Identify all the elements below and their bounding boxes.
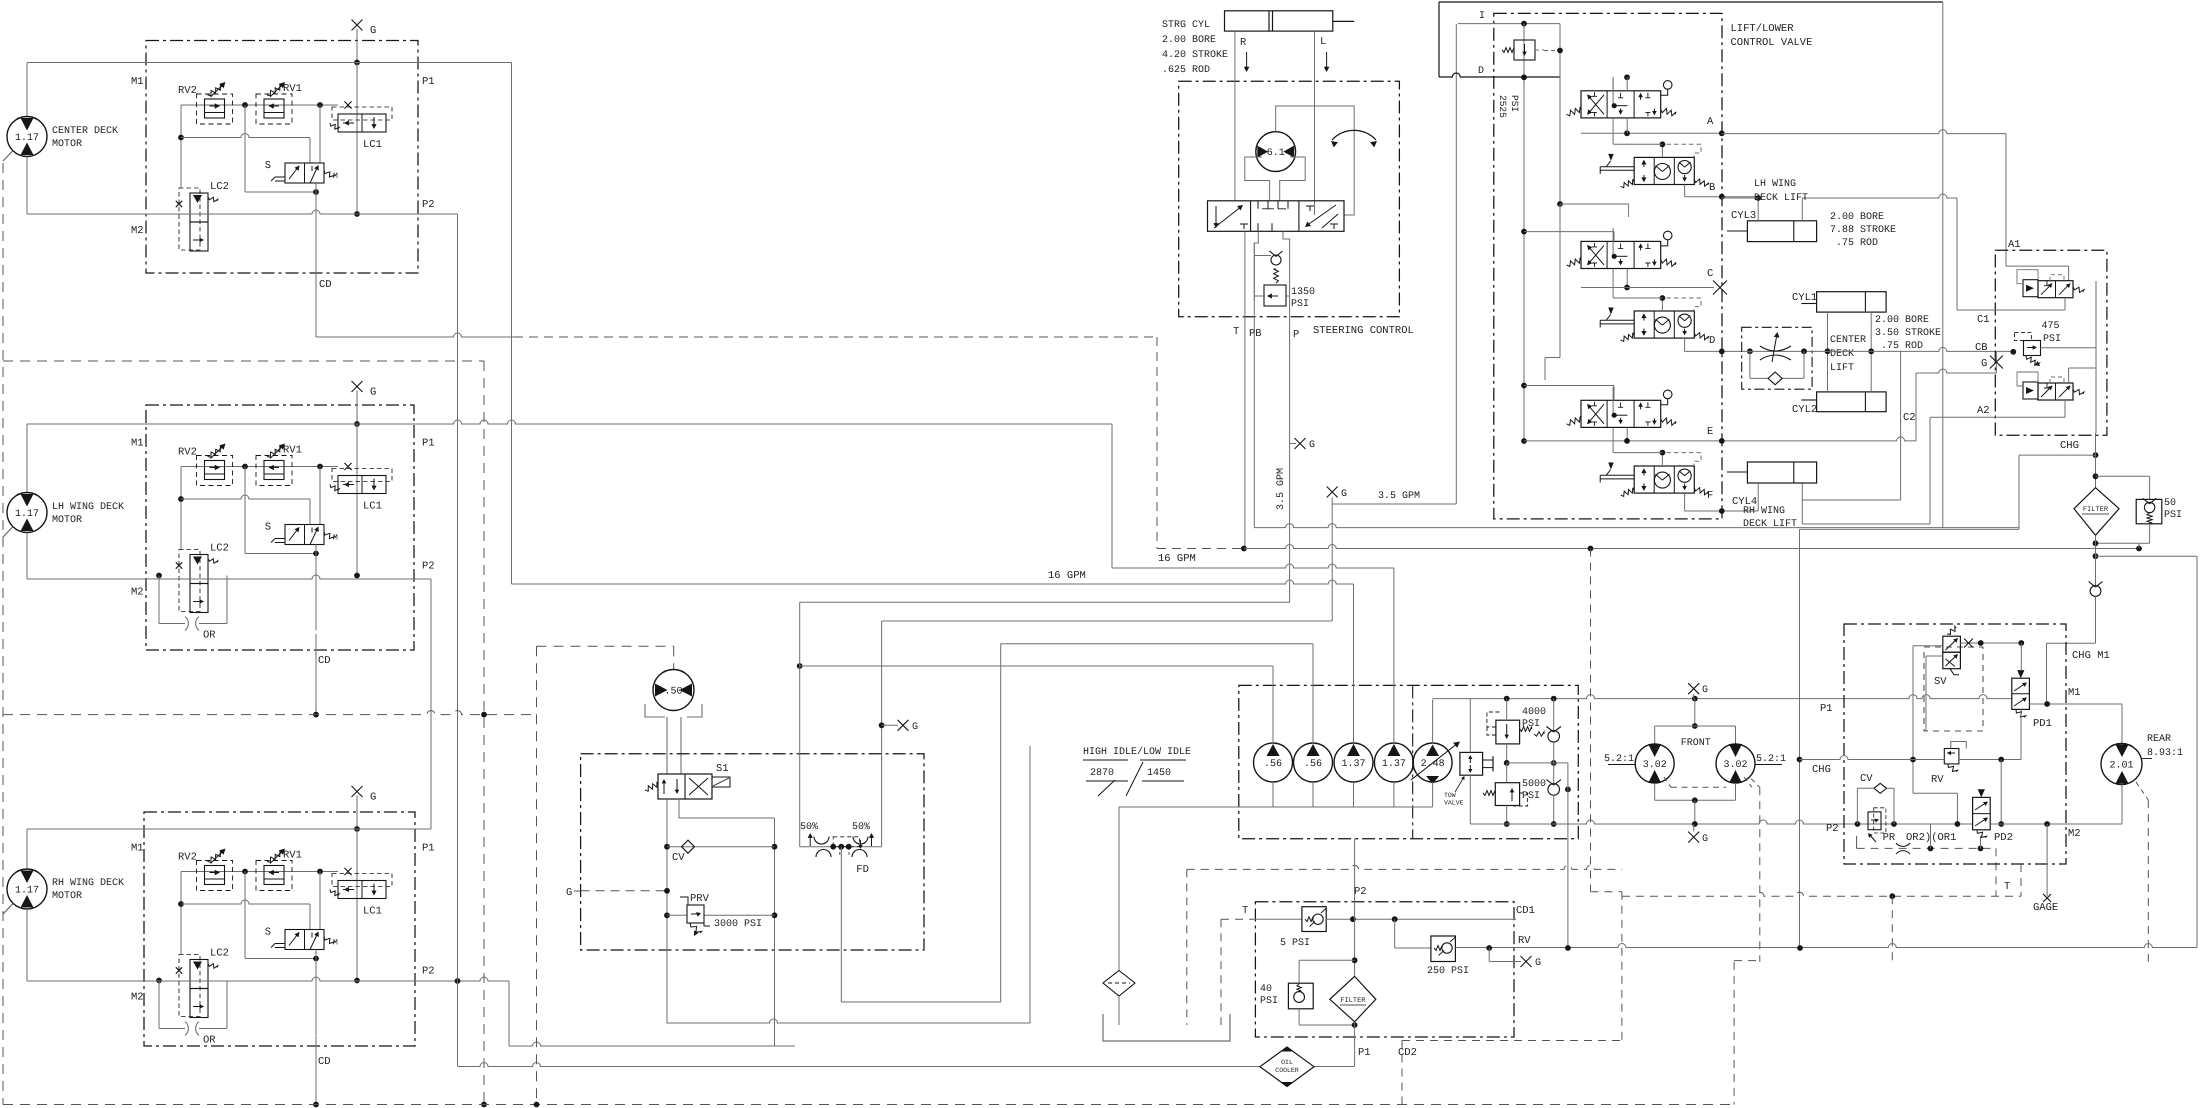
svg-text:C: C [1707, 268, 1713, 280]
svg-text:RH WING: RH WING [1743, 506, 1785, 517]
svg-text:RH WING DECK: RH WING DECK [52, 878, 124, 889]
svg-text:R: R [1240, 37, 1247, 49]
svg-text:PD1: PD1 [2033, 718, 2052, 730]
svg-text:T: T [2004, 881, 2010, 893]
svg-text:PD2: PD2 [1994, 832, 2013, 844]
svg-text:M1: M1 [131, 843, 144, 855]
svg-text:OR: OR [203, 630, 216, 642]
svg-text:3.02: 3.02 [1643, 760, 1667, 771]
svg-text:CD2: CD2 [1398, 1047, 1417, 1059]
svg-text:CYL1: CYL1 [1792, 292, 1817, 304]
svg-text:PSI: PSI [2164, 510, 2182, 521]
svg-text:CONTROL VALVE: CONTROL VALVE [1731, 37, 1813, 49]
svg-text:PSI: PSI [1260, 996, 1278, 1007]
svg-text:LC1: LC1 [363, 139, 382, 151]
svg-text:3000 PSI: 3000 PSI [714, 919, 762, 930]
svg-text:4000: 4000 [1522, 707, 1546, 718]
svg-text:LC2: LC2 [210, 181, 229, 193]
svg-text:3.5 GPM: 3.5 GPM [1276, 468, 1287, 510]
svg-text:LH WING: LH WING [1754, 179, 1796, 190]
svg-text:P1: P1 [1358, 1047, 1371, 1059]
svg-text:FRONT: FRONT [1681, 738, 1711, 749]
svg-text:LIFT/LOWER: LIFT/LOWER [1731, 23, 1795, 35]
svg-text:5 PSI: 5 PSI [1280, 938, 1310, 949]
svg-text:MOTOR: MOTOR [52, 891, 82, 902]
svg-text:PSI: PSI [1522, 791, 1540, 802]
svg-text:CHG: CHG [2060, 440, 2079, 452]
svg-text:G: G [370, 387, 376, 399]
svg-text:2.00 BORE: 2.00 BORE [1875, 315, 1929, 326]
svg-text:DECK LIFT: DECK LIFT [1743, 519, 1797, 530]
svg-text:RV2: RV2 [178, 852, 197, 864]
svg-text:CENTER DECK: CENTER DECK [52, 126, 118, 137]
svg-text:PSI: PSI [2043, 334, 2061, 345]
svg-text:REAR: REAR [2147, 734, 2171, 745]
svg-text:G: G [1309, 440, 1315, 451]
svg-text:M1: M1 [131, 438, 144, 450]
svg-text:.625 ROD: .625 ROD [1162, 65, 1210, 76]
svg-text:2.48: 2.48 [1421, 759, 1445, 770]
svg-text:CD1: CD1 [1516, 905, 1535, 917]
svg-text:50%: 50% [852, 822, 870, 833]
svg-text:STRG CYL: STRG CYL [1162, 20, 1210, 31]
svg-text:G: G [1535, 958, 1541, 969]
svg-text:RV2: RV2 [178, 85, 197, 97]
svg-text:G: G [1702, 685, 1708, 696]
svg-text:STEERING CONTROL: STEERING CONTROL [1313, 325, 1414, 337]
svg-text:T: T [1233, 326, 1239, 338]
svg-text:G: G [1341, 489, 1347, 500]
svg-text:M1: M1 [131, 76, 144, 88]
svg-text:CV: CV [672, 852, 685, 864]
svg-text:DECK: DECK [1830, 349, 1854, 360]
svg-text:C1: C1 [1977, 314, 1990, 326]
svg-text:.56: .56 [1304, 759, 1322, 770]
svg-text:2870: 2870 [1090, 768, 1114, 779]
svg-text:CHG: CHG [1812, 764, 1831, 776]
svg-text:P1: P1 [422, 438, 435, 450]
svg-text:5.2:1: 5.2:1 [1756, 754, 1786, 765]
svg-text:RV2: RV2 [178, 447, 197, 459]
svg-text:M: M [333, 939, 338, 948]
svg-text:P2: P2 [1354, 886, 1367, 898]
svg-text:A2: A2 [1977, 405, 1990, 417]
svg-text:50%: 50% [800, 822, 818, 833]
svg-text:1.17: 1.17 [15, 886, 39, 897]
svg-text:OIL: OIL [1281, 1059, 1293, 1066]
svg-text:RV1: RV1 [283, 445, 302, 457]
svg-text:PSI: PSI [1522, 719, 1540, 730]
svg-text:LH WING DECK: LH WING DECK [52, 502, 124, 513]
svg-text:8.93:1: 8.93:1 [2147, 748, 2183, 759]
svg-text:1350: 1350 [1291, 287, 1315, 298]
svg-text:A1: A1 [2008, 239, 2021, 251]
svg-text:.75 ROD: .75 ROD [1881, 341, 1923, 352]
svg-text:VALVE: VALVE [1444, 800, 1464, 807]
svg-text:16 GPM: 16 GPM [1158, 553, 1196, 565]
svg-text:RV: RV [1931, 774, 1944, 786]
svg-text:PSI: PSI [1291, 299, 1309, 310]
svg-text:2.00 BORE: 2.00 BORE [1162, 35, 1216, 46]
svg-text:16 GPM: 16 GPM [1048, 570, 1086, 582]
svg-text:SV: SV [1934, 676, 1947, 688]
svg-text:G: G [566, 887, 572, 899]
svg-text:M2: M2 [131, 992, 144, 1004]
svg-text:HIGH IDLE/LOW IDLE: HIGH IDLE/LOW IDLE [1083, 746, 1191, 758]
svg-text:OR2)(OR1: OR2)(OR1 [1906, 832, 1956, 844]
svg-text:.75 ROD: .75 ROD [1836, 238, 1878, 249]
svg-text:DECK LIFT: DECK LIFT [1754, 193, 1808, 204]
svg-text:C2: C2 [1903, 412, 1916, 424]
svg-text:7.88 STROKE: 7.88 STROKE [1830, 225, 1896, 236]
svg-text:P: P [1293, 329, 1299, 341]
svg-text:FD: FD [856, 864, 869, 876]
svg-text:M: M [333, 534, 338, 543]
svg-text:M2: M2 [2068, 828, 2081, 840]
svg-text:I: I [1479, 11, 1485, 22]
svg-text:P1: P1 [422, 76, 435, 88]
svg-text:PRV: PRV [690, 893, 710, 905]
svg-text:OR: OR [203, 1035, 216, 1047]
svg-text:1.17: 1.17 [15, 509, 39, 520]
svg-text:2.01: 2.01 [2109, 761, 2133, 772]
svg-text:.56: .56 [1264, 759, 1282, 770]
svg-text:S: S [265, 927, 271, 939]
svg-text:A: A [1707, 116, 1714, 128]
svg-text:G: G [370, 25, 376, 37]
svg-text:PB: PB [1249, 328, 1262, 340]
svg-text:1450: 1450 [1147, 768, 1171, 779]
svg-text:MOTOR: MOTOR [52, 139, 82, 150]
svg-text:P2: P2 [422, 561, 435, 573]
svg-text:CYL2: CYL2 [1792, 404, 1817, 416]
svg-text:P2: P2 [1826, 823, 1839, 835]
svg-text:RV1: RV1 [283, 83, 302, 95]
svg-text:P2: P2 [422, 966, 435, 978]
svg-text:CD: CD [318, 1056, 331, 1068]
svg-text:3.02: 3.02 [1723, 760, 1747, 771]
svg-text:1.17: 1.17 [15, 133, 39, 144]
svg-text:GAGE: GAGE [2033, 902, 2058, 914]
svg-text:CHG M1: CHG M1 [2072, 650, 2110, 662]
svg-text:MOTOR: MOTOR [52, 515, 82, 526]
svg-text:40: 40 [1260, 984, 1272, 995]
svg-text:G: G [912, 722, 918, 733]
svg-text:3.50 STROKE: 3.50 STROKE [1875, 328, 1941, 339]
svg-text:CD: CD [318, 655, 331, 667]
svg-text:CB: CB [1975, 342, 1988, 354]
svg-text:.50: .50 [664, 687, 682, 698]
svg-text:D: D [1709, 335, 1715, 347]
svg-text:E: E [1707, 426, 1713, 438]
svg-text:P2: P2 [422, 199, 435, 211]
svg-text:2525: 2525 [1497, 95, 1508, 118]
svg-text:LC2: LC2 [210, 543, 229, 555]
svg-text:FILTER: FILTER [1340, 997, 1366, 1005]
svg-text:RV: RV [1518, 935, 1531, 947]
svg-text:PR: PR [1883, 832, 1896, 844]
svg-text:M1: M1 [2068, 687, 2081, 699]
svg-text:LC1: LC1 [363, 501, 382, 513]
svg-text:CV: CV [1860, 773, 1873, 785]
svg-text:4.20 STROKE: 4.20 STROKE [1162, 50, 1228, 61]
svg-text:1.37: 1.37 [1382, 759, 1406, 770]
svg-text:PSI: PSI [1509, 95, 1520, 112]
svg-text:TOW: TOW [1444, 792, 1456, 799]
svg-text:5000: 5000 [1522, 779, 1546, 790]
svg-text:475: 475 [2042, 321, 2060, 332]
svg-text:G: G [1981, 358, 1987, 370]
svg-text:F: F [1707, 490, 1713, 502]
svg-text:COOLER: COOLER [1275, 1067, 1299, 1074]
svg-text:250 PSI: 250 PSI [1427, 966, 1469, 977]
svg-text:G: G [370, 792, 376, 804]
svg-text:T: T [1242, 905, 1248, 917]
svg-text:LC1: LC1 [363, 906, 382, 918]
svg-text:D: D [1478, 66, 1484, 77]
svg-text:G: G [1702, 834, 1708, 845]
svg-text:M2: M2 [131, 587, 144, 599]
svg-text:P1: P1 [1820, 703, 1833, 715]
svg-text:FILTER: FILTER [2083, 506, 2109, 514]
svg-text:B: B [1709, 182, 1715, 194]
svg-text:RV1: RV1 [283, 850, 302, 862]
svg-text:L: L [1320, 36, 1326, 48]
svg-text:6.1: 6.1 [1267, 148, 1285, 159]
svg-text:M: M [333, 172, 338, 181]
svg-text:M2: M2 [131, 225, 144, 237]
svg-text:P1: P1 [422, 843, 435, 855]
svg-text:S: S [265, 160, 271, 172]
svg-text:CENTER: CENTER [1830, 335, 1866, 346]
svg-text:1.37: 1.37 [1341, 759, 1365, 770]
svg-text:50: 50 [2164, 498, 2176, 509]
svg-text:2.00 BORE: 2.00 BORE [1830, 212, 1884, 223]
svg-text:5.2:1: 5.2:1 [1604, 754, 1634, 765]
svg-text:S: S [265, 522, 271, 534]
svg-text:LC2: LC2 [210, 948, 229, 960]
svg-text:3.5 GPM: 3.5 GPM [1378, 491, 1420, 502]
svg-text:LIFT: LIFT [1830, 363, 1854, 374]
svg-text:S1: S1 [716, 763, 729, 775]
svg-text:CD: CD [319, 279, 332, 291]
